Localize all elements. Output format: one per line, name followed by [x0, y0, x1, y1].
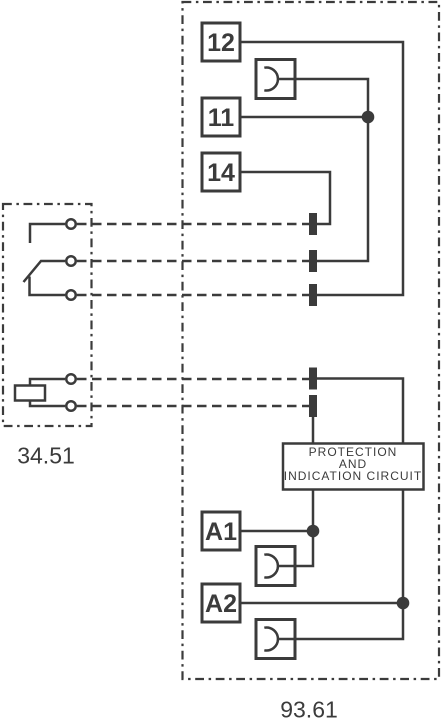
node A2 junction dot	[397, 597, 410, 610]
relay coil pin circle top	[66, 374, 76, 384]
dashed link relay coil pin to socket bar A2	[77, 405, 309, 408]
relay NC pin circle	[66, 290, 76, 300]
svg-text:INDICATION CIRCUIT: INDICATION CIRCUIT	[284, 469, 422, 483]
svg-text:34.51: 34.51	[17, 443, 75, 469]
wire lamp A2 to node A2	[295, 603, 403, 639]
dashed link relay NO pin to socket bar 14	[77, 223, 309, 226]
wire bar A2 to protection circuit	[317, 379, 403, 444]
wire bar A1 to protection circuit	[312, 417, 315, 444]
relay outline 34.51 (dash-dot border)	[3, 204, 92, 426]
svg-text:14: 14	[207, 159, 235, 187]
socket terminal bar 14	[309, 213, 317, 235]
relay NC fixed contact riser	[30, 277, 66, 296]
relay coil pin circle bottom	[66, 401, 76, 411]
node A junction dot	[362, 111, 375, 124]
dashed link relay coil pin to socket bar A1	[77, 378, 309, 381]
wire lamp1 to node A to socket bar 11	[277, 79, 368, 261]
relay NO pin circle	[66, 219, 76, 229]
wire 14 terminal box to NO socket bar	[240, 172, 330, 224]
indicator lamp top (contact LED)	[256, 60, 295, 99]
svg-text:11: 11	[208, 104, 235, 132]
svg-text:A1: A1	[205, 518, 237, 546]
terminal box A1	[202, 512, 240, 550]
wire lamp A1 to node A1	[295, 531, 313, 566]
socket terminal bar A1 (coil bottom)	[309, 395, 317, 417]
svg-text:93.61: 93.61	[280, 697, 338, 720]
terminal box 12	[202, 23, 240, 61]
indicator lamp A2	[256, 620, 295, 659]
node A1 junction dot	[307, 525, 320, 538]
socket terminal bar 11	[309, 250, 317, 272]
wire A1 terminal box to node A1	[240, 530, 313, 533]
indicator lamp A1	[256, 547, 295, 586]
wire protection circuit to node A2	[402, 490, 405, 604]
relay NO fixed contact	[30, 224, 65, 243]
protection and indication circuit block	[283, 444, 424, 490]
wire 11 terminal box to node A	[240, 116, 368, 119]
socket terminal bar 12	[309, 284, 317, 306]
terminal box 14	[202, 153, 240, 191]
terminal box 11	[202, 98, 240, 136]
wire 12 terminal box to NC socket bar	[240, 42, 403, 295]
wire A2 terminal box to node A2	[240, 602, 403, 605]
svg-text:12: 12	[207, 29, 235, 57]
wire protection circuit to node A1	[312, 490, 315, 532]
svg-text:A2: A2	[205, 590, 237, 618]
relay coil	[15, 379, 65, 406]
socket outline 93.61 (dash-dot border)	[183, 2, 440, 679]
relay COM pin circle	[66, 256, 76, 266]
terminal box A2	[202, 584, 240, 622]
socket terminal bar A2 (coil top)	[309, 368, 317, 390]
relay movable blade (COM)	[24, 261, 66, 282]
dashed link relay NC pin to socket bar 12	[77, 294, 309, 297]
dashed link relay COM pin to socket bar 11	[77, 260, 309, 263]
